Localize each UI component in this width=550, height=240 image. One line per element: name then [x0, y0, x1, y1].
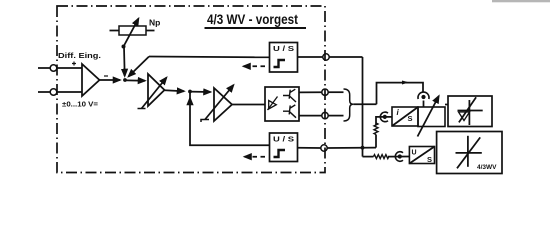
svg-text:4/3 WV - vorgest: 4/3 WV - vorgest — [207, 11, 298, 27]
svg-text:U: U — [412, 150, 417, 157]
svg-text:±0...10 V=: ±0...10 V= — [62, 102, 98, 109]
svg-text:Np: Np — [149, 18, 160, 28]
svg-text:i: i — [397, 108, 400, 117]
svg-text:U / S: U / S — [273, 137, 294, 144]
svg-text:4/3WV: 4/3WV — [477, 164, 497, 171]
svg-text:S: S — [427, 155, 432, 164]
svg-text:Diff. Eing.: Diff. Eing. — [58, 51, 101, 60]
svg-text:S: S — [408, 114, 413, 123]
svg-text:U / S: U / S — [273, 46, 294, 53]
